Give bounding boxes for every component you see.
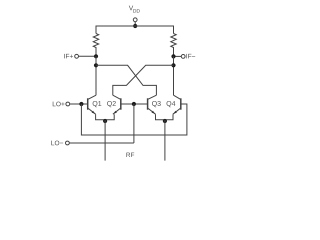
junction: LO+ tap (79, 102, 83, 106)
terminal LO- (66, 141, 70, 145)
wire: cross link IF+ to Q3 collector (96, 65, 156, 95)
wire: right RF stub (164, 120, 166, 161)
label Q3 (152, 101, 161, 107)
node IF- (171, 54, 175, 58)
resistor R2 (right load) (171, 34, 176, 57)
transistor Q3 (148, 95, 157, 114)
wire: Q1-Q2 emitter link (96, 114, 115, 120)
transistor Q2 (113, 95, 121, 114)
label LO+ (53, 102, 65, 107)
wire: LO- riser (133, 104, 135, 143)
label V_DD (129, 6, 140, 13)
label LO- (51, 141, 63, 146)
terminal LO+ (66, 102, 70, 106)
emitter arrow Q1 (92, 111, 95, 114)
terminal IF+ (75, 54, 79, 58)
label Q4 (167, 101, 176, 107)
terminal IF- (181, 55, 185, 59)
wire: IF- lead (174, 55, 182, 57)
wire: Q2-Q3 base tie (121, 103, 148, 105)
junction: cross wire at IF- column (171, 63, 175, 67)
node IF+ (94, 54, 98, 58)
wire: Q4 collector riser (173, 56, 175, 95)
label IF+ (64, 54, 73, 59)
junction: Q3-Q4 emitter node (163, 119, 167, 123)
wire: V_DD stub (134, 22, 136, 26)
wire: LO+ lead to Q1 base (70, 103, 88, 105)
junction: cross wire at IF+ column (94, 63, 98, 67)
wire: cross link IF- to Q2 collector (113, 65, 174, 95)
junction: V_DD on rail (133, 24, 137, 28)
wire: IF+ lead (79, 55, 97, 57)
transistor Q4 (173, 95, 181, 114)
label Q2 (107, 101, 116, 107)
label RF (126, 153, 134, 157)
wire: left RF stub (104, 120, 106, 161)
label Q1 (93, 101, 102, 107)
junction: Q1-Q2 emitter node (103, 119, 107, 123)
wire: Q1 collector riser (95, 56, 97, 95)
terminal V_DD (133, 18, 137, 22)
wire: Q3-Q4 emitter link (156, 114, 174, 120)
emitter arrow Q2 (114, 111, 117, 114)
wire: LO+ route to Q4 base (81, 104, 186, 135)
wire: top supply rail (96, 26, 174, 34)
wire: LO- lead (69, 142, 134, 144)
emitter arrow Q4 (174, 111, 177, 114)
resistor R1 (left load) (93, 34, 98, 57)
label IF- (186, 54, 195, 59)
transistor Q1 (88, 95, 96, 114)
emitter arrow Q3 (152, 111, 155, 114)
junction: base tie midpoint (132, 102, 136, 106)
